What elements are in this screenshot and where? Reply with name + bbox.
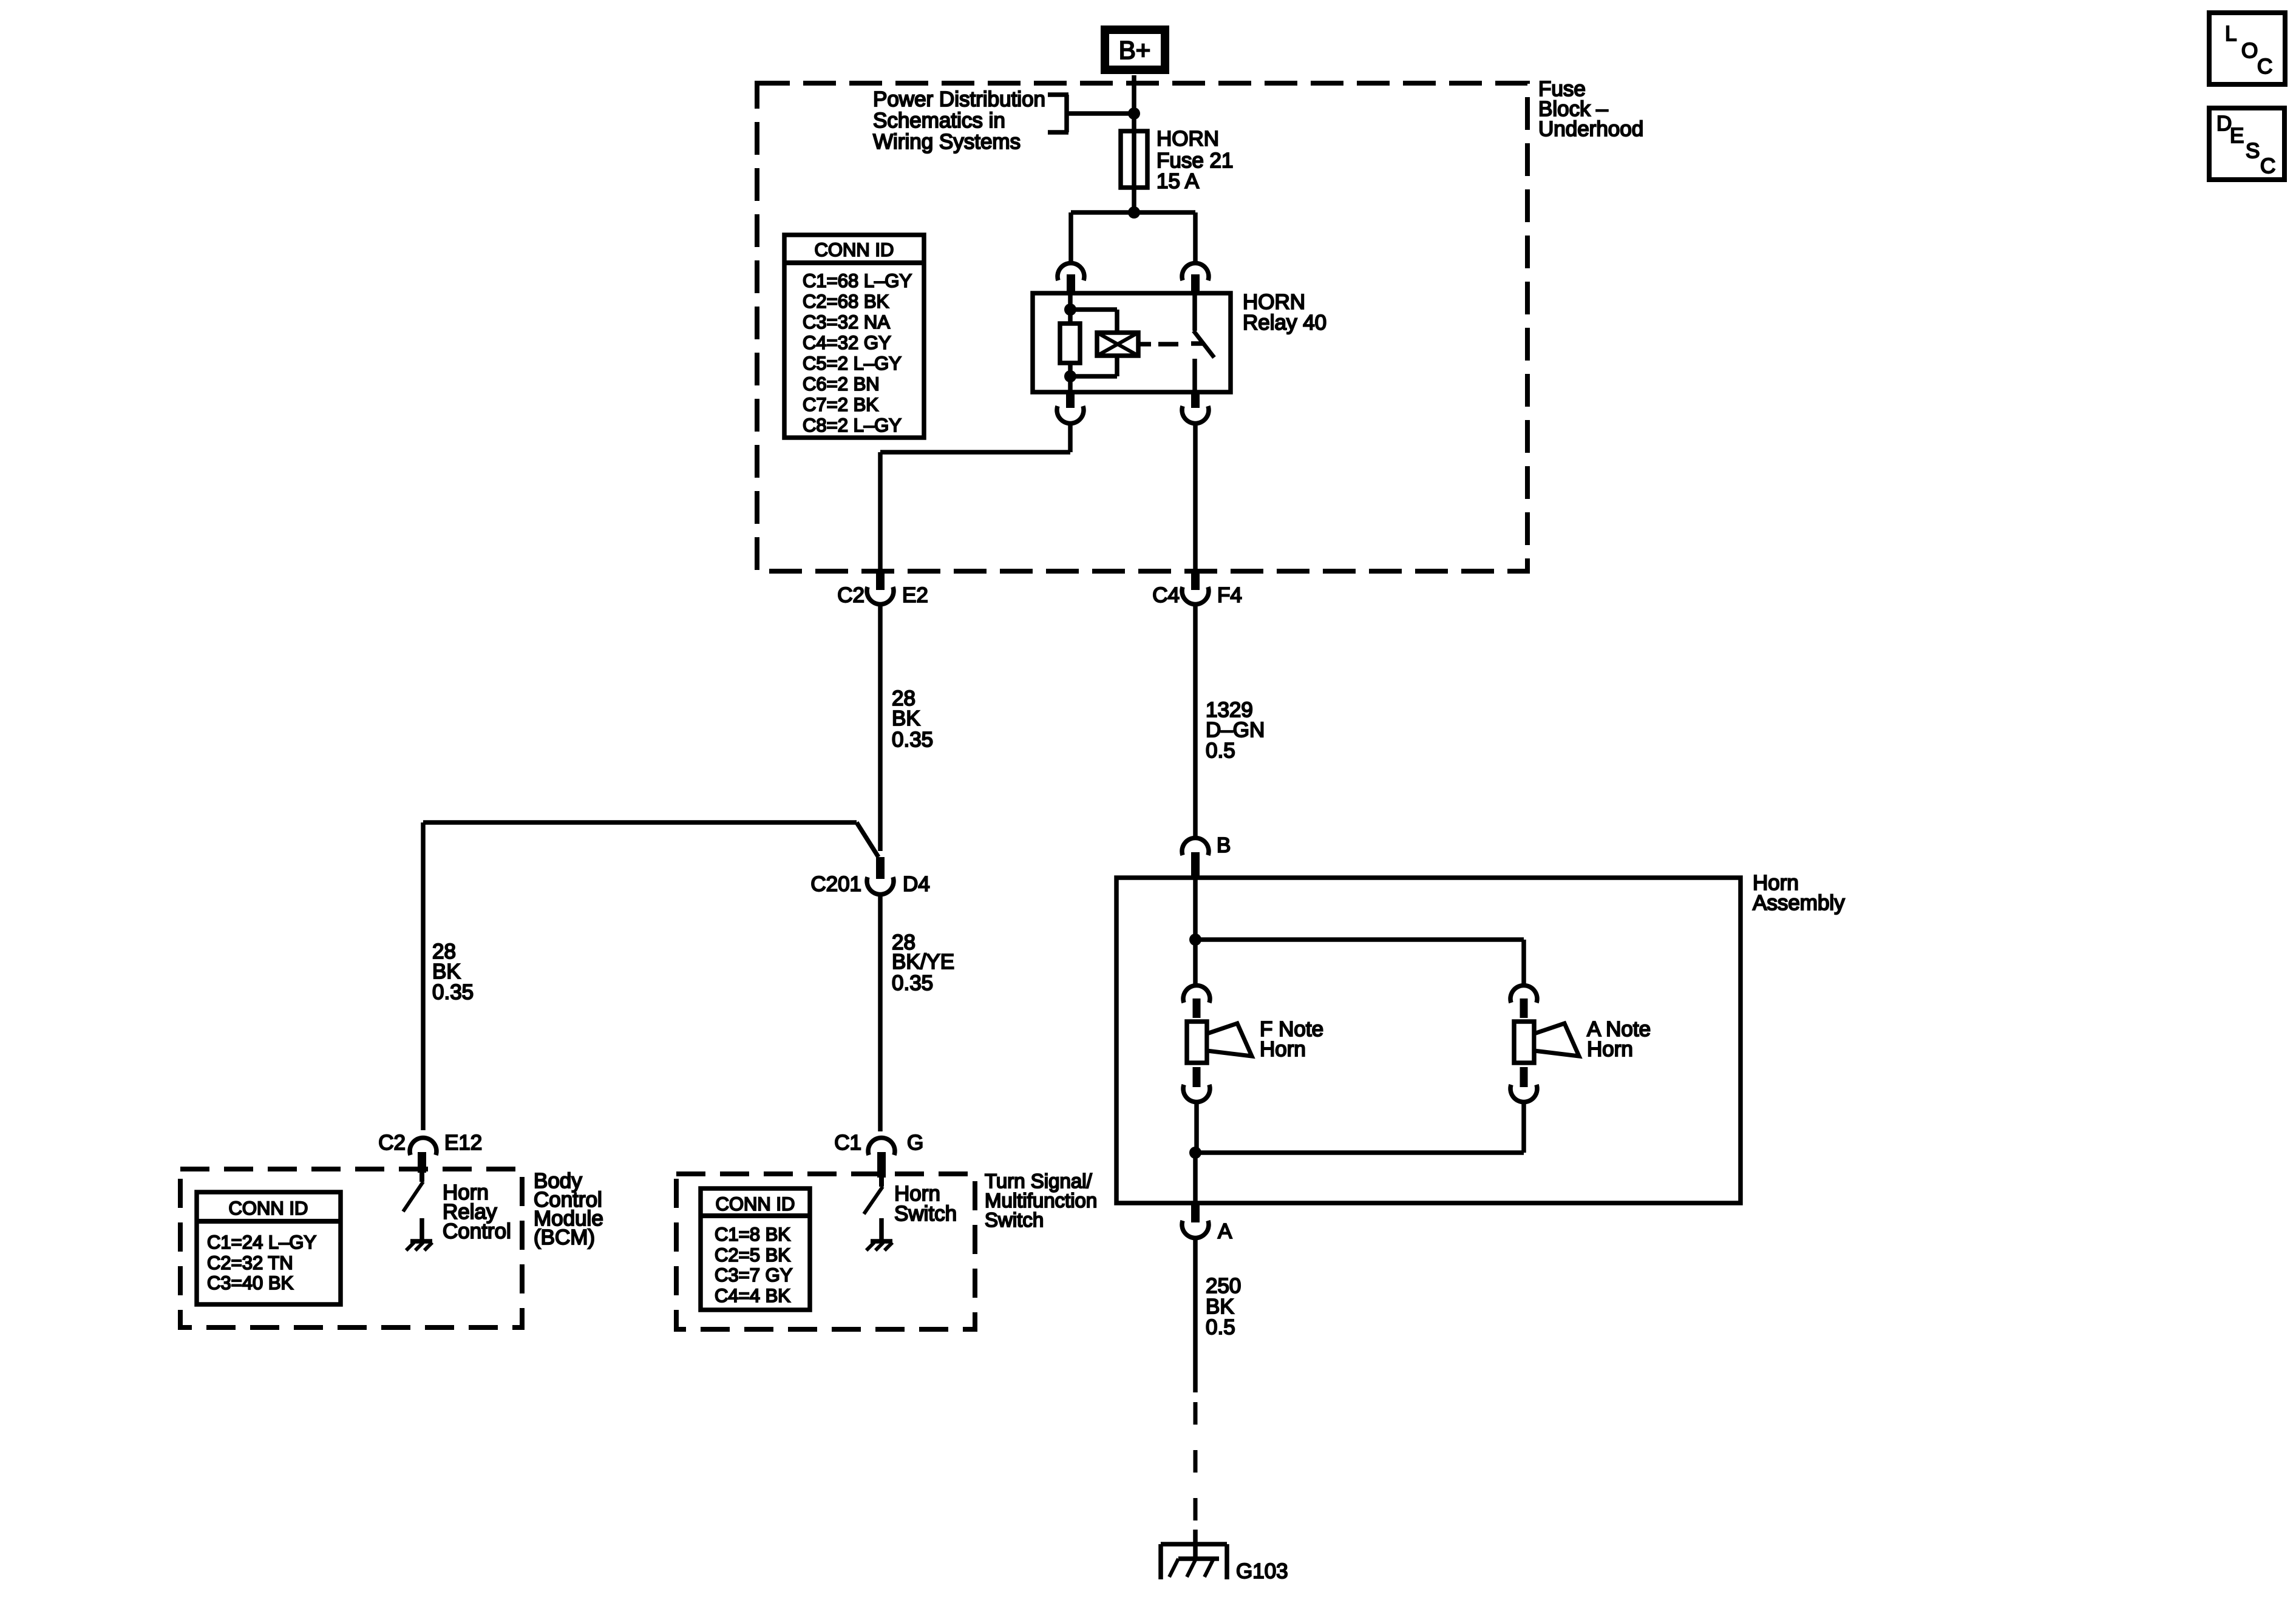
svg-text:E: E — [2230, 124, 2244, 147]
svg-text:C1: C1 — [834, 1131, 861, 1154]
svg-text:C2: C2 — [837, 583, 864, 607]
svg-text:D4: D4 — [903, 872, 930, 896]
svg-text:HORN: HORN — [1156, 127, 1219, 151]
svg-text:L: L — [2225, 22, 2237, 46]
svg-text:C1=24 L–GY: C1=24 L–GY — [207, 1232, 316, 1253]
svg-text:C2: C2 — [378, 1131, 406, 1154]
svg-text:15 A: 15 A — [1156, 169, 1200, 193]
svg-text:C2=5 BK: C2=5 BK — [715, 1244, 790, 1266]
svg-text:C: C — [2257, 55, 2272, 78]
svg-text:0.35: 0.35 — [432, 980, 474, 1004]
svg-text:S: S — [2246, 139, 2260, 163]
svg-text:0.5: 0.5 — [1206, 1315, 1235, 1339]
svg-text:CONN ID: CONN ID — [229, 1198, 308, 1219]
svg-text:CONN ID: CONN ID — [815, 239, 894, 260]
svg-text:E2: E2 — [902, 583, 928, 607]
svg-text:C5=2 L–GY: C5=2 L–GY — [803, 353, 902, 374]
svg-text:C201: C201 — [810, 872, 861, 896]
svg-text:C7=2 BK: C7=2 BK — [803, 394, 878, 415]
svg-text:C1=8 BK: C1=8 BK — [715, 1224, 790, 1245]
svg-text:Horn: Horn — [1587, 1037, 1633, 1061]
svg-text:C2=68 BK: C2=68 BK — [803, 291, 889, 312]
svg-text:BK: BK — [892, 707, 920, 730]
svg-text:0.5: 0.5 — [1206, 739, 1235, 762]
svg-text:C4=32 GY: C4=32 GY — [803, 332, 891, 353]
svg-text:Underhood: Underhood — [1538, 117, 1643, 141]
svg-text:Power Distribution: Power Distribution — [873, 87, 1045, 111]
svg-text:F4: F4 — [1217, 583, 1242, 607]
svg-text:Schematics in: Schematics in — [873, 109, 1005, 132]
svg-text:Switch: Switch — [985, 1209, 1044, 1231]
svg-text:Relay 40: Relay 40 — [1243, 311, 1326, 334]
svg-text:Switch: Switch — [894, 1202, 957, 1225]
svg-text:C6=2 BN: C6=2 BN — [803, 373, 880, 395]
svg-text:B: B — [1217, 833, 1231, 857]
svg-text:A: A — [1218, 1219, 1232, 1243]
svg-text:C8=2 L–GY: C8=2 L–GY — [803, 415, 902, 436]
svg-text:G103: G103 — [1236, 1559, 1288, 1583]
svg-text:C1=68 L–GY: C1=68 L–GY — [803, 270, 912, 291]
svg-text:Assembly: Assembly — [1753, 891, 1845, 915]
svg-text:C3=40 BK: C3=40 BK — [207, 1272, 294, 1293]
svg-text:C: C — [2260, 154, 2275, 178]
svg-text:Wiring Systems: Wiring Systems — [873, 130, 1021, 154]
svg-text:B+: B+ — [1119, 36, 1151, 64]
svg-text:0.35: 0.35 — [892, 728, 933, 751]
svg-text:(BCM): (BCM) — [534, 1225, 595, 1249]
svg-text:C4=4 BK: C4=4 BK — [715, 1285, 790, 1306]
svg-text:CONN ID: CONN ID — [716, 1193, 795, 1215]
svg-text:G: G — [907, 1131, 923, 1154]
svg-text:O: O — [2241, 39, 2258, 63]
svg-text:0.35: 0.35 — [892, 971, 933, 995]
svg-text:Horn: Horn — [1260, 1037, 1306, 1061]
svg-text:C2=32 TN: C2=32 TN — [207, 1252, 293, 1273]
svg-text:C4: C4 — [1152, 583, 1180, 607]
svg-text:E12: E12 — [444, 1131, 482, 1154]
svg-text:C3=7 GY: C3=7 GY — [715, 1264, 792, 1286]
svg-text:Control: Control — [443, 1219, 511, 1243]
svg-text:C3=32 NA: C3=32 NA — [803, 311, 890, 333]
svg-text:BK/YE: BK/YE — [892, 950, 954, 974]
